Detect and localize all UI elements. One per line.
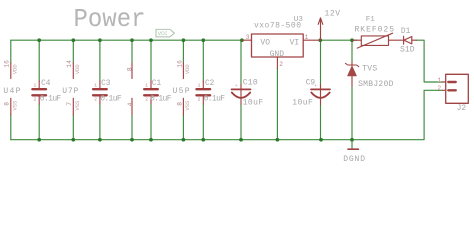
- svg-text:VSS: VSS: [185, 101, 191, 111]
- svg-text:1: 1: [34, 83, 37, 89]
- svg-text:C10: C10: [243, 78, 258, 87]
- svg-text:C1: C1: [152, 80, 162, 88]
- svg-text:2: 2: [437, 85, 441, 92]
- svg-text:Power: Power: [74, 4, 146, 34]
- svg-text:VDD: VDD: [75, 64, 81, 74]
- svg-text:0.1uF: 0.1uF: [150, 95, 172, 104]
- svg-text:4: 4: [127, 102, 134, 106]
- svg-text:0.1uF: 0.1uF: [40, 95, 62, 104]
- svg-text:10uF: 10uF: [243, 99, 264, 108]
- svg-text:7: 7: [66, 102, 73, 106]
- svg-text:SMBJ20D: SMBJ20D: [358, 80, 393, 89]
- svg-text:1: 1: [94, 83, 97, 89]
- svg-text:DGND: DGND: [343, 155, 365, 164]
- svg-text:3: 3: [246, 34, 250, 41]
- svg-text:1: 1: [198, 83, 201, 89]
- svg-text:TVS: TVS: [362, 65, 377, 74]
- svg-text:S1D: S1D: [400, 46, 415, 55]
- svg-text:vxo78-500: vxo78-500: [254, 21, 301, 30]
- svg-text:+: +: [235, 84, 238, 89]
- svg-text:VDD: VDD: [185, 64, 191, 74]
- svg-text:0.1uF: 0.1uF: [204, 95, 226, 104]
- svg-text:VSS: VSS: [13, 101, 19, 111]
- svg-text:12V: 12V: [325, 10, 341, 19]
- svg-text:F1: F1: [366, 16, 376, 24]
- svg-text:2: 2: [145, 97, 148, 103]
- svg-text:RKEF025: RKEF025: [355, 26, 395, 35]
- svg-text:2: 2: [279, 61, 283, 68]
- svg-text:14: 14: [66, 60, 73, 68]
- svg-text:U4P: U4P: [3, 87, 20, 96]
- svg-text:U7P: U7P: [62, 87, 78, 96]
- svg-text:D1: D1: [401, 28, 411, 36]
- svg-text:10uF: 10uF: [292, 99, 313, 108]
- svg-text:0.1uF: 0.1uF: [100, 95, 122, 104]
- svg-text:VCC: VCC: [158, 30, 168, 37]
- svg-text:16: 16: [176, 60, 183, 68]
- svg-text:16: 16: [4, 60, 11, 68]
- svg-text:1: 1: [437, 77, 441, 84]
- svg-text:U5P: U5P: [173, 87, 190, 96]
- svg-text:VSS: VSS: [75, 101, 81, 111]
- svg-text:2: 2: [34, 97, 37, 103]
- svg-text:VDD: VDD: [13, 64, 19, 74]
- svg-text:8: 8: [176, 102, 183, 106]
- svg-text:1: 1: [305, 34, 309, 41]
- svg-text:1: 1: [145, 83, 148, 89]
- svg-text:2: 2: [94, 97, 97, 103]
- svg-text:C2: C2: [205, 80, 215, 88]
- svg-text:C3: C3: [101, 80, 111, 88]
- svg-text:8: 8: [4, 102, 11, 106]
- svg-text:J2: J2: [457, 105, 467, 113]
- svg-text:VI: VI: [290, 39, 300, 48]
- svg-text:8: 8: [126, 67, 133, 71]
- svg-text:VO: VO: [260, 39, 270, 48]
- svg-text:2: 2: [198, 97, 201, 103]
- svg-text:C4: C4: [41, 80, 51, 88]
- svg-text:+: +: [314, 84, 317, 89]
- svg-text:GND: GND: [270, 50, 285, 59]
